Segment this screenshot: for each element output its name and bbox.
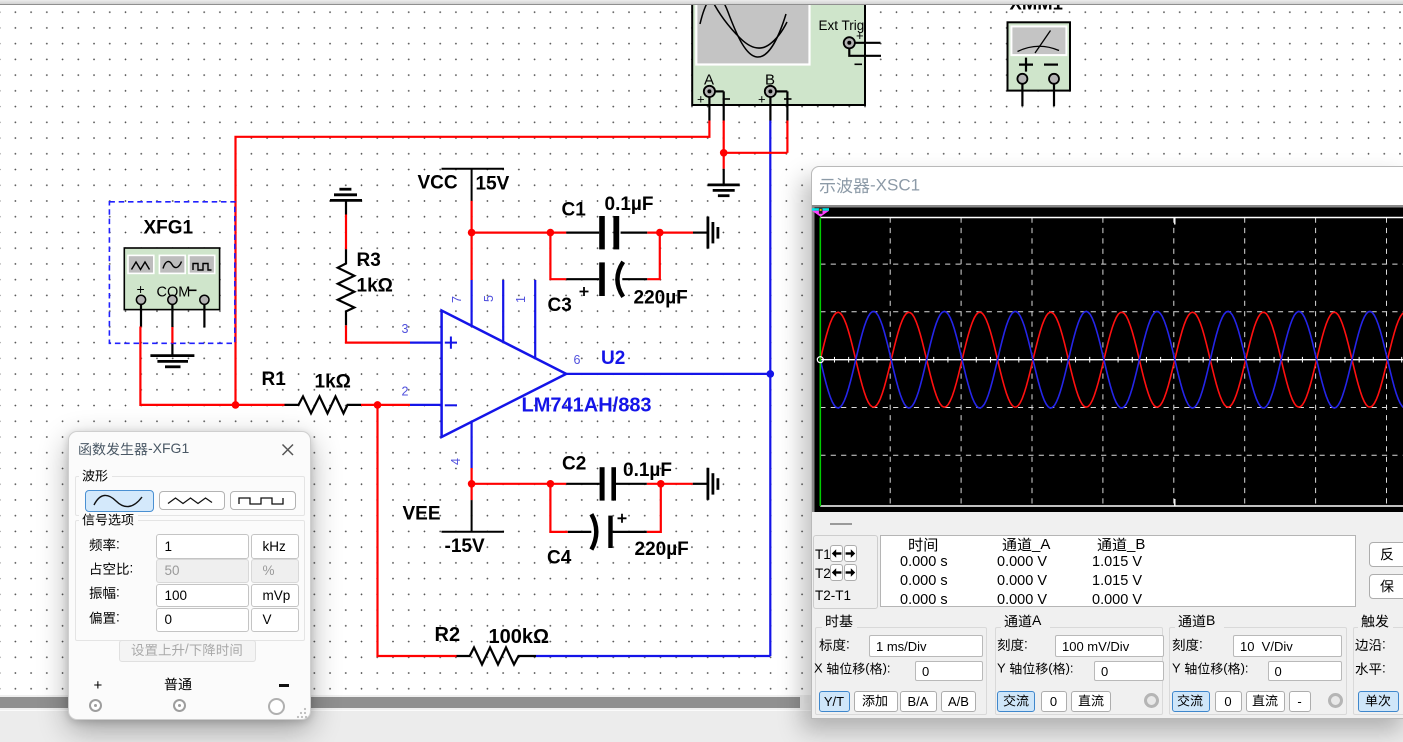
svg-text:1kΩ: 1kΩ	[357, 276, 393, 297]
svg-text::: :	[130, 562, 134, 576]
ground right of C2 (rotated)	[693, 468, 718, 500]
ground above R3 (inverted)	[330, 189, 362, 214]
node: scope ground junction	[720, 149, 728, 157]
svg-text:2: 2	[402, 385, 409, 399]
svg-text:LM741AH/883: LM741AH/883	[522, 395, 652, 417]
svg-text:7: 7	[450, 296, 464, 303]
svg-text:C3: C3	[548, 295, 572, 316]
svg-text:6: 6	[574, 353, 581, 367]
svg-text:A: A	[704, 72, 714, 89]
svg-text::: :	[116, 586, 120, 600]
svg-text:-15V: -15V	[445, 536, 485, 557]
resistor R3	[338, 249, 393, 325]
capacitor C4 220uF polarized	[547, 514, 689, 569]
svg-text:VCC: VCC	[418, 173, 458, 194]
node: VCC junctions	[468, 229, 664, 237]
svg-text::: :	[1024, 638, 1028, 652]
wire: output vertical net (scope B+ down to R2)	[769, 121, 771, 657]
wire: VCC rail down to pin 7	[471, 201, 473, 280]
op-amp U2 LM741AH/883	[442, 280, 652, 468]
svg-text:3: 3	[402, 322, 409, 336]
svg-text:A: A	[1032, 614, 1042, 628]
node: VEE junctions	[468, 480, 665, 488]
wire: R3 top to ground	[345, 215, 347, 250]
wire: XFG1 + output down to node	[140, 327, 284, 405]
wire: feedback down to R2 left	[378, 405, 457, 656]
svg-text:C2: C2	[562, 454, 586, 475]
svg-text::: :	[116, 611, 120, 625]
svg-text:B: B	[1206, 614, 1215, 628]
svg-text:VEE: VEE	[403, 504, 441, 525]
instrument XFG1 function generator symbol	[109, 202, 234, 343]
svg-text:Y: Y	[1172, 662, 1181, 675]
node: R1 left junction	[232, 401, 240, 409]
svg-text:):: ):	[883, 662, 891, 675]
wire: VEE rail to C2	[472, 483, 693, 485]
svg-text:B: B	[765, 72, 775, 89]
wire: R1 right to op-amp pin 2	[361, 404, 442, 406]
svg-text:220µF: 220µF	[635, 539, 689, 560]
svg-text::: :	[1382, 638, 1386, 652]
wire: R2 right to output net	[536, 655, 770, 657]
svg-text:-XFG1: -XFG1	[148, 442, 189, 456]
power VCC 15V	[418, 169, 510, 201]
resistor R2	[435, 624, 550, 665]
svg-text:100kΩ: 100kΩ	[489, 626, 550, 648]
svg-text:U2: U2	[601, 348, 625, 369]
svg-text:C4: C4	[547, 548, 572, 569]
wire: VEE rail pin 4	[471, 468, 473, 500]
wire: C3 parallel stubs top	[550, 233, 659, 280]
ground right of C1 (rotated)	[693, 217, 718, 249]
wire: scope A- / B- to ground	[724, 121, 788, 169]
svg-text::: :	[1199, 638, 1203, 652]
node: output junction	[767, 370, 775, 378]
instrument XMM1 multimeter symbol	[1008, 0, 1071, 106]
svg-text:_B: _B	[1126, 537, 1145, 553]
svg-text::: :	[116, 538, 120, 552]
ground below scope terminals	[708, 169, 740, 196]
svg-text::: :	[846, 638, 850, 652]
wire: C4 parallel stubs bottom	[550, 484, 660, 532]
svg-text:15V: 15V	[476, 174, 510, 195]
svg-text:_A: _A	[1031, 537, 1050, 553]
instrument XSC1 oscilloscope symbol	[692, 0, 881, 121]
capacitor C1 0.1uF	[562, 194, 654, 249]
svg-text:0.1µF: 0.1µF	[623, 460, 672, 481]
svg-text:R3: R3	[357, 250, 381, 271]
wire: R3 bottom to op-amp pin 3	[346, 325, 442, 342]
svg-text:):: ):	[1066, 662, 1074, 675]
node: feedback junction at R1 right	[374, 401, 382, 409]
svg-text:220µF: 220µF	[634, 288, 688, 309]
svg-text:(: (	[1048, 662, 1053, 675]
resistor R1	[262, 369, 362, 413]
svg-text:R2: R2	[435, 624, 461, 646]
ground below XFG1 COM	[150, 343, 194, 367]
svg-text::: :	[1382, 662, 1386, 676]
svg-text:X: X	[814, 662, 823, 675]
svg-text:0.1µF: 0.1µF	[605, 194, 654, 215]
svg-text:+: +	[856, 28, 864, 43]
power VEE -15V	[403, 500, 505, 557]
svg-text:1: 1	[514, 296, 528, 303]
op-amp pin numbers	[402, 295, 581, 465]
svg-text:4: 4	[449, 458, 463, 465]
wire: scope A+ to input node	[236, 121, 710, 405]
capacitor C3 220uF polarized	[548, 262, 688, 316]
wire: VCC rail to C1	[472, 232, 693, 234]
svg-text:):: ):	[1240, 662, 1248, 675]
svg-text:XFG1: XFG1	[144, 218, 194, 239]
svg-text:C1: C1	[562, 200, 587, 221]
svg-text:/: /	[185, 643, 189, 657]
capacitor C2 0.1uF	[562, 454, 672, 501]
svg-text:+: +	[758, 92, 766, 107]
wire: op-amp output pin 6	[566, 373, 770, 375]
svg-text:(: (	[865, 662, 870, 675]
svg-text:1kΩ: 1kΩ	[315, 372, 351, 393]
svg-text:Y: Y	[997, 662, 1006, 675]
svg-text:+: +	[697, 92, 705, 107]
svg-text:-XSC1: -XSC1	[870, 177, 920, 194]
svg-text:5: 5	[482, 295, 496, 302]
svg-text:(: (	[1223, 662, 1228, 675]
svg-text:R1: R1	[262, 369, 287, 390]
